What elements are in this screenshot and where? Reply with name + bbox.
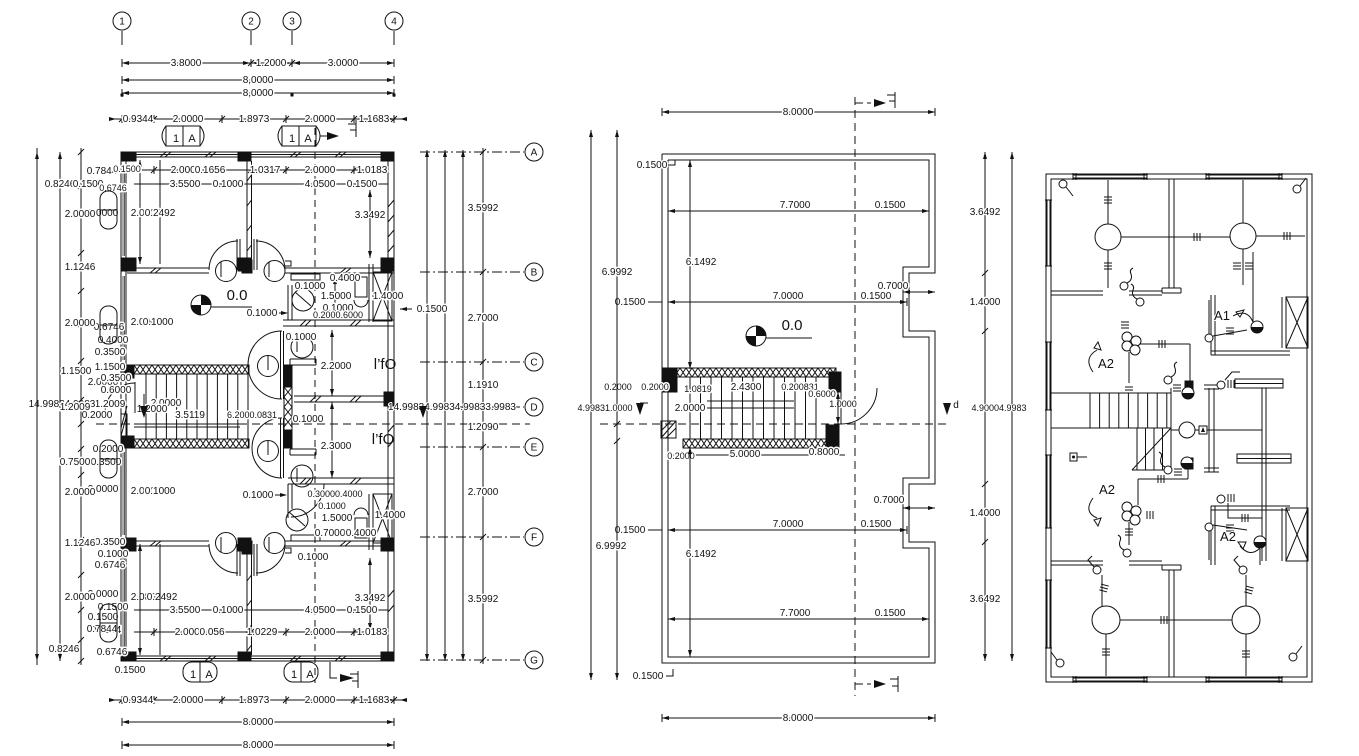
right interior wall vertical upper [1168, 179, 1170, 288]
middle top dimension 8.0000 [662, 111, 935, 113]
svg-text:1.4000: 1.4000 [970, 297, 1001, 308]
wire L3 down [1105, 634, 1107, 676]
svg-text:0.1000: 0.1000 [145, 486, 176, 497]
svg-text:0.1500: 0.1500 [347, 179, 378, 190]
svg-text:2.0000: 2.0000 [305, 165, 336, 176]
wire L1 up [1107, 180, 1109, 224]
right small sq stairs [1070, 453, 1077, 461]
svg-text:2.0000: 2.0000 [65, 318, 96, 329]
door arc B-left [209, 241, 238, 270]
svg-text:l’fO: l’fO [372, 431, 395, 448]
grid bubble C [525, 353, 543, 371]
grid bubble E [525, 438, 543, 456]
middle stair bottom band [683, 439, 829, 448]
door arc B-right [256, 241, 285, 270]
dim 2.2000 upper [331, 330, 333, 396]
svg-text:0.7000: 0.7000 [874, 495, 905, 506]
middle dim 0.7000 lower [903, 507, 935, 509]
hall door leaf lower [280, 418, 282, 478]
svg-text:3.8000: 3.8000 [171, 58, 202, 69]
middle vertical dim 6.1492 lower [689, 447, 691, 657]
switch L4 top [1239, 566, 1247, 574]
svg-text:1.0317: 1.0317 [250, 165, 281, 176]
label 3.3492 upper [369, 190, 371, 258]
wire L3-L4 [1120, 619, 1232, 621]
dimension row bottom 8.0000 second [122, 744, 394, 746]
section marker 1-A top left [166, 126, 200, 146]
wire cluster right [1140, 343, 1190, 345]
svg-text:A: A [188, 133, 196, 145]
left plan left wall [120, 152, 122, 661]
switch bottom-right corner [1289, 653, 1297, 661]
svg-text:2.0000: 2.0000 [173, 114, 204, 125]
corridor stub wall upper [290, 358, 316, 360]
left plan right wall [393, 152, 395, 661]
svg-text:G: G [530, 656, 538, 667]
svg-text:6.2000.0831: 6.2000.0831 [227, 410, 277, 420]
svg-text:0.0: 0.0 [227, 287, 248, 304]
wall D horizontal [294, 395, 388, 397]
junction cluster upper [1122, 332, 1132, 342]
bath left wall upper [287, 285, 289, 320]
switch top-right corner [1293, 185, 1301, 193]
svg-text:3.5119: 3.5119 [175, 410, 205, 421]
light circle L1 [1095, 224, 1121, 250]
middle 1.0000 arrow right stairs [837, 392, 839, 424]
right plan bottom windows [1073, 680, 1147, 682]
svg-text:8.0000: 8.0000 [783, 107, 814, 118]
left plan left wall window lines [122, 168, 124, 256]
svg-text:1.1683: 1.1683 [359, 695, 390, 706]
svg-text:4.0500: 4.0500 [305, 179, 336, 190]
wire L3 up [1101, 575, 1103, 606]
svg-text:1.2009: 1.2009 [60, 402, 91, 413]
middle dim row 7.0000 lower [668, 529, 907, 531]
bath right wall upper [368, 264, 370, 322]
middle stair handrail [707, 400, 794, 402]
svg-text:1: 1 [291, 669, 297, 681]
vertical dim x140 upper [139, 160, 141, 264]
svg-text:0.1000: 0.1000 [247, 308, 278, 319]
svg-text:0.7000: 0.7000 [315, 528, 346, 539]
svg-text:0.1000: 0.1000 [286, 332, 317, 343]
svg-text:8,0000: 8,0000 [243, 75, 274, 86]
section arrow bottom [330, 662, 337, 678]
svg-text:2.2000: 2.2000 [321, 361, 352, 372]
middle axis arrow right [943, 403, 951, 415]
svg-text:1.8973: 1.8973 [239, 695, 270, 706]
grid bubble F [525, 528, 543, 546]
grid bubble 4 [385, 12, 403, 30]
section arrow top [327, 132, 339, 140]
ticks A2 lower [1152, 511, 1154, 519]
svg-text:8.0000: 8.0000 [783, 713, 814, 724]
middle stair door arc [840, 388, 842, 424]
door arc F-right [256, 544, 285, 573]
column grid1-F [121, 538, 136, 551]
wire cluster down upper [1128, 352, 1130, 383]
column stair top-left [121, 365, 134, 378]
svg-text:0.1500: 0.1500 [615, 525, 646, 536]
svg-text:7.0000: 7.0000 [773, 519, 804, 530]
svg-text:0.4000: 0.4000 [346, 528, 377, 539]
door knob circle F-right [264, 533, 285, 554]
left wall lower hatched column [121, 414, 127, 436]
svg-text:2.0000: 2.0000 [65, 487, 96, 498]
middle section flag top [855, 102, 871, 104]
wire L2 down [1242, 249, 1244, 285]
right triangle box [1199, 426, 1207, 434]
svg-text:F: F [531, 533, 537, 544]
svg-text:B: B [531, 268, 538, 279]
hall door arc lower [252, 418, 282, 478]
switch stairs lower [1164, 466, 1172, 474]
svg-text:1.2000: 1.2000 [256, 58, 287, 69]
svg-text:0.1656: 0.1656 [195, 165, 226, 176]
wire bed upper [1217, 381, 1225, 389]
svg-text:0.4000: 0.4000 [98, 335, 129, 346]
svg-text:4: 4 [391, 17, 397, 28]
svg-text:A: A [531, 148, 538, 159]
door arc F-left [209, 544, 238, 573]
corridor stub wall lower [290, 448, 316, 450]
grid dots [121, 94, 123, 96]
middle dim row 7.7000 bottom [668, 618, 929, 620]
knob hook F-right [285, 548, 291, 553]
dim row y637 lower [134, 631, 378, 633]
svg-text:6.1492: 6.1492 [686, 549, 717, 560]
middle dim row 7.0000 upper [668, 301, 907, 303]
middle right chain line 1 [984, 152, 986, 661]
interior wall grid2 lower [246, 554, 248, 655]
axis arrow right [419, 406, 427, 418]
middle dim 0.7000 upper [903, 291, 935, 293]
right interior wall F mid [1129, 560, 1162, 562]
right center wall [1208, 388, 1210, 472]
svg-text:0.6746: 0.6746 [95, 560, 126, 571]
svg-text:A1: A1 [1214, 308, 1230, 323]
stair upper crosshatch band [134, 365, 249, 374]
svg-text:2: 2 [248, 17, 254, 28]
bath left wall lower [287, 484, 289, 509]
middle right chain line 2 [1011, 152, 1013, 661]
middle stair treads [677, 376, 829, 378]
svg-text:0.2000: 0.2000 [641, 382, 669, 392]
svg-text:3.5500: 3.5500 [170, 179, 201, 190]
wire top-left stub [1062, 188, 1064, 196]
svg-text:0.7500: 0.7500 [60, 457, 91, 468]
svg-text:2.0000: 2.0000 [65, 592, 96, 603]
hall door arc upper [248, 331, 282, 399]
right plan top windows [1073, 174, 1147, 176]
right plan stair diagonal break [1132, 428, 1171, 470]
section marker 1-A bottom right [284, 662, 318, 682]
door knob circle B-left [216, 261, 237, 282]
column stair bottom-left [121, 436, 134, 448]
svg-text:0.2492: 0.2492 [145, 208, 176, 219]
switch top-left corner [1059, 180, 1067, 188]
svg-text:3.6492: 3.6492 [970, 594, 1001, 605]
svg-text:0.056: 0.056 [199, 627, 224, 638]
middle left chain line 2 [616, 130, 618, 680]
dashed section line grid3 [314, 128, 316, 683]
dimension row 8.0000 second [122, 92, 394, 94]
grid bubble G [525, 651, 543, 669]
svg-text:8.0000: 8.0000 [243, 740, 274, 751]
svg-text:0.1000: 0.1000 [143, 317, 174, 328]
svg-text:6.1492: 6.1492 [686, 257, 717, 268]
svg-text:1: 1 [173, 133, 179, 145]
svg-text:0.1500: 0.1500 [115, 665, 146, 676]
switch bottom-left corner [1056, 659, 1064, 667]
middle datum symbol [746, 326, 766, 346]
column wall B center [242, 260, 252, 273]
right black column upper [1185, 381, 1193, 392]
svg-text:0.1500: 0.1500 [875, 608, 906, 619]
left chain line 1 [36, 152, 38, 661]
column grid4-G [381, 652, 394, 661]
svg-text:E: E [531, 443, 538, 454]
wire L2 right [1256, 235, 1305, 237]
svg-text:0.30000.4000: 0.30000.4000 [307, 489, 362, 499]
svg-text:0.9344: 0.9344 [123, 114, 154, 125]
window tag oval left 1 [100, 191, 117, 229]
svg-text:2.0000: 2.0000 [65, 209, 96, 220]
wc circle near stairs upper [258, 356, 279, 377]
junction cluster lower [1122, 502, 1132, 512]
door leaf B-left [236, 239, 238, 270]
middle section dashed vertical [854, 97, 856, 696]
right chain line 3 [462, 150, 464, 661]
stair right wall with black fill [284, 365, 292, 387]
stair lower crosshatch band [134, 439, 249, 448]
svg-text:3.5500: 3.5500 [170, 605, 201, 616]
middle left chain line 1 [590, 130, 592, 680]
column grid1-B [121, 258, 136, 271]
svg-text:A: A [304, 133, 312, 145]
svg-text:A2: A2 [1099, 482, 1115, 497]
svg-text:A: A [306, 669, 314, 681]
svg-text:0.8246: 0.8246 [49, 644, 80, 655]
right plan stairs [1051, 392, 1171, 394]
wall B horizontal right part [285, 267, 394, 269]
right bath upper walls [1210, 295, 1212, 355]
right plan stair wall [1170, 388, 1172, 472]
left plan bottom wall [121, 660, 394, 662]
section marker 1-A bottom left [183, 662, 217, 682]
bath top wall lower [288, 477, 394, 479]
right interior wall F left [1051, 560, 1103, 562]
svg-text:1.5000: 1.5000 [322, 513, 353, 524]
left plan top wall [121, 151, 394, 153]
light circle L3 [1092, 606, 1120, 634]
svg-text:3.5992: 3.5992 [468, 594, 499, 605]
svg-text:0.1500: 0.1500 [113, 164, 141, 174]
svg-text:3.0000: 3.0000 [328, 58, 359, 69]
svg-text:3.3492: 3.3492 [355, 210, 386, 221]
interior wall grid2 upper [246, 161, 248, 260]
bath washbasin upper [292, 289, 314, 311]
svg-text:0.1500: 0.1500 [875, 200, 906, 211]
svg-text:1.0819: 1.0819 [684, 384, 712, 394]
svg-text:0.2000: 0.2000 [604, 382, 632, 392]
svg-text:7.0000: 7.0000 [773, 291, 804, 302]
fan A1 [1251, 321, 1263, 333]
bath dim line upper [334, 277, 336, 316]
column grid4-F [381, 538, 394, 551]
svg-text:0.1000: 0.1000 [213, 179, 244, 190]
svg-text:1.5000: 1.5000 [321, 291, 352, 302]
column grid4-D [384, 392, 394, 406]
right lamp holder circle [1179, 422, 1195, 438]
switch wall B 1 [1120, 282, 1128, 290]
svg-text:1.2009: 1.2009 [95, 399, 126, 410]
right bed rect lower [1237, 454, 1291, 463]
svg-text:0.1500: 0.1500 [417, 304, 448, 315]
dim 2.3000 lower [331, 402, 333, 478]
svg-text:0.1000: 0.1000 [318, 501, 346, 511]
middle outer wall [662, 154, 935, 663]
switch bath lower [1205, 523, 1213, 531]
svg-text:2.7000: 2.7000 [468, 313, 499, 324]
svg-text:0.2492: 0.2492 [147, 592, 178, 603]
svg-text:0.1000: 0.1000 [243, 490, 274, 501]
right bed rect upper [1235, 379, 1283, 388]
left chain line 3 [80, 152, 82, 661]
svg-text:0.1500: 0.1500 [861, 519, 892, 530]
window tag oval left 3 [100, 440, 117, 478]
svg-text:2.0000: 2.0000 [675, 403, 706, 414]
svg-text:C: C [530, 358, 537, 369]
door leaf F-left [236, 544, 238, 576]
svg-text:2.4300: 2.4300 [731, 382, 762, 393]
bath washbasin lower [286, 509, 308, 531]
svg-text:0.8246: 0.8246 [45, 179, 76, 190]
svg-text:0.6000: 0.6000 [808, 389, 836, 399]
column grid2-G [238, 652, 251, 661]
svg-text:6.9992: 6.9992 [596, 541, 627, 552]
bath door arc lower [291, 484, 324, 517]
section flag bottom [357, 671, 359, 688]
svg-text:A2: A2 [1220, 529, 1236, 544]
grid bubble 2 [242, 12, 260, 30]
svg-text:0.1500: 0.1500 [88, 612, 119, 623]
svg-text:1.0183: 1.0183 [357, 165, 388, 176]
svg-text:0.1000: 0.1000 [298, 552, 329, 563]
svg-text:1.4000: 1.4000 [970, 508, 1001, 519]
entry door arc left wall [134, 382, 136, 413]
svg-text:0.3500: 0.3500 [95, 537, 126, 548]
column grid2-A [238, 152, 251, 161]
section marker 1-A top right [282, 126, 316, 146]
svg-text:3.3492: 3.3492 [355, 593, 386, 604]
svg-text:0.2000.6000: 0.2000.6000 [313, 310, 363, 320]
middle bottom dimension 8.0000 [662, 717, 935, 719]
stair treads [134, 373, 249, 375]
switch stairs upper2 [1254, 244, 1256, 246]
right black column lower [1185, 458, 1193, 469]
fan bath lower [1254, 536, 1266, 548]
light circle L2 [1230, 223, 1256, 249]
svg-text:4.90004.9983: 4.90004.9983 [971, 403, 1026, 413]
dimension row 0.9344/2.0000/1.8973/2.0000/1.1683 top [111, 118, 405, 120]
wire L1-L2 [1121, 236, 1230, 238]
wire bed lower [1217, 495, 1225, 503]
stair handrail [134, 423, 240, 425]
window tag oval left 2 [100, 306, 117, 344]
wire to fan A1 [1252, 252, 1254, 322]
svg-text:0.4000: 0.4000 [330, 273, 361, 284]
dimension row bottom 8.0000 first [122, 721, 394, 723]
bottom wall hatch marks [160, 656, 166, 661]
svg-text:1.1246: 1.1246 [65, 538, 96, 549]
svg-text:0.1000: 0.1000 [213, 605, 244, 616]
wire fan2 path [1187, 468, 1189, 479]
wall F horizontal right part [285, 540, 394, 542]
column grid4-B [381, 258, 394, 271]
svg-text:6.9992: 6.9992 [602, 267, 633, 278]
right plan outer wall [1046, 174, 1312, 682]
middle axis arrow left [636, 403, 644, 415]
right wall hatching [388, 200, 394, 207]
middle section flag bottom [855, 683, 871, 685]
svg-text:4.0500: 4.0500 [305, 605, 336, 616]
svg-text:2.0000: 2.0000 [305, 695, 336, 706]
svg-text:7.7000: 7.7000 [780, 200, 811, 211]
svg-text:2.0000: 2.0000 [305, 114, 336, 125]
svg-text:1.1500: 1.1500 [61, 366, 92, 377]
right shaft box lower [1286, 508, 1308, 561]
axis dashed line left plan [96, 423, 530, 425]
switch stairs upper [1164, 376, 1172, 384]
right shaft box upper [1286, 297, 1308, 348]
grid bubble 3 [283, 12, 301, 30]
svg-text:2.3000: 2.3000 [321, 441, 352, 452]
left chain line 2 [59, 152, 61, 661]
svg-text:A: A [205, 669, 213, 681]
switch bath upper [1205, 334, 1213, 342]
ticks below A2 upper [1121, 321, 1129, 323]
wc circle near stairs lower [258, 441, 279, 462]
svg-text:0.0: 0.0 [782, 317, 803, 334]
right chain line 4 with ticks [482, 150, 484, 661]
svg-text:1.0229: 1.0229 [247, 627, 278, 638]
svg-text:3.6492: 3.6492 [970, 207, 1001, 218]
svg-text:1: 1 [289, 133, 295, 145]
dim row y170 [134, 169, 378, 171]
svg-text:D: D [530, 403, 537, 414]
fan mid-upper [1182, 387, 1194, 399]
middle inner wall line [668, 160, 929, 657]
label 3.3492 lower [369, 558, 371, 630]
svg-text:1.2090: 1.2090 [468, 422, 499, 433]
wire L2 up [1242, 180, 1244, 223]
right interior wall B left [1051, 290, 1103, 292]
grid bubble B [525, 263, 543, 281]
svg-text:2.0000: 2.0000 [305, 627, 336, 638]
svg-text:0.1000: 0.1000 [98, 549, 129, 560]
knob hook B-right [285, 261, 291, 266]
svg-text:0.7844: 0.7844 [87, 624, 118, 635]
svg-text:8,0000: 8,0000 [243, 88, 274, 99]
svg-text:3: 3 [289, 17, 295, 28]
column grid4-A [381, 152, 394, 161]
svg-text:0.7000: 0.7000 [878, 281, 909, 292]
svg-text:1.0183: 1.0183 [357, 627, 388, 638]
column grid2-B [238, 258, 251, 271]
svg-text:0.1500: 0.1500 [615, 297, 646, 308]
axis arrow left [140, 406, 148, 418]
